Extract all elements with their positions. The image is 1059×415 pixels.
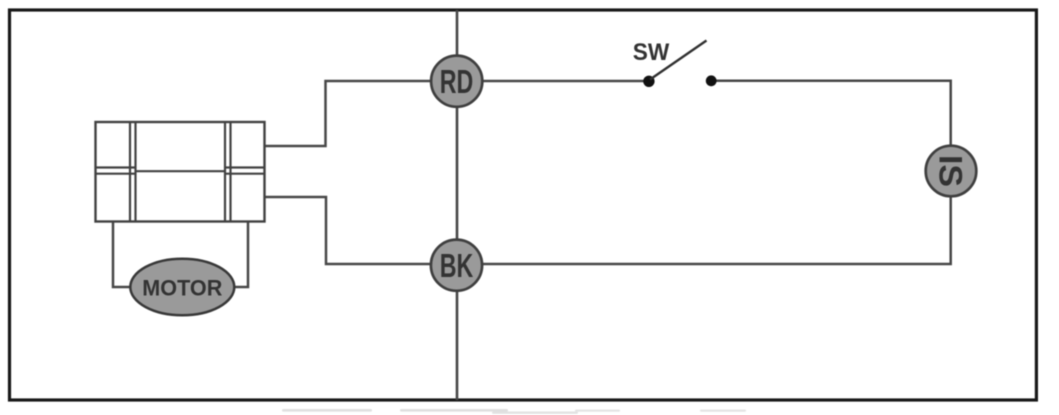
indicator IS	[926, 146, 977, 197]
wire: motor lead right	[234, 222, 248, 288]
switch SW pole dot	[643, 76, 654, 87]
valve flange line right inner 1	[224, 122, 226, 222]
cropped caption remnants below frame	[282, 409, 746, 414]
svg-text:RD: RD	[440, 63, 474, 100]
svg-text:SW: SW	[633, 39, 670, 66]
valve flange line left inner 2	[134, 122, 136, 222]
svg-text:MOTOR: MOTOR	[142, 276, 222, 301]
terminal BK	[431, 240, 482, 291]
wire: valve to RD lead	[265, 81, 458, 146]
valve center shaft line	[136, 170, 226, 172]
wire: center vertical bus	[456, 10, 459, 400]
valve flange line right inner 2	[229, 122, 231, 222]
valve left port line lower	[96, 173, 136, 175]
valve left port line upper	[96, 166, 136, 168]
switch SW throw dot	[706, 75, 717, 86]
wire: RD to switch	[457, 80, 645, 83]
valve right port line upper	[225, 166, 265, 168]
motor M	[130, 259, 234, 316]
valve actuator body	[96, 122, 265, 222]
wire: motor lead left	[113, 222, 131, 288]
svg-text:IS: IS	[933, 155, 969, 187]
terminal RD	[431, 56, 482, 107]
valve flange line left inner 1	[129, 122, 131, 222]
wire: switch to IS to BK loop	[457, 81, 951, 264]
svg-text:BK: BK	[440, 247, 474, 284]
switch SW blade	[650, 41, 707, 80]
wire: valve to BK lead	[265, 197, 458, 264]
valve right port line lower	[225, 173, 265, 175]
